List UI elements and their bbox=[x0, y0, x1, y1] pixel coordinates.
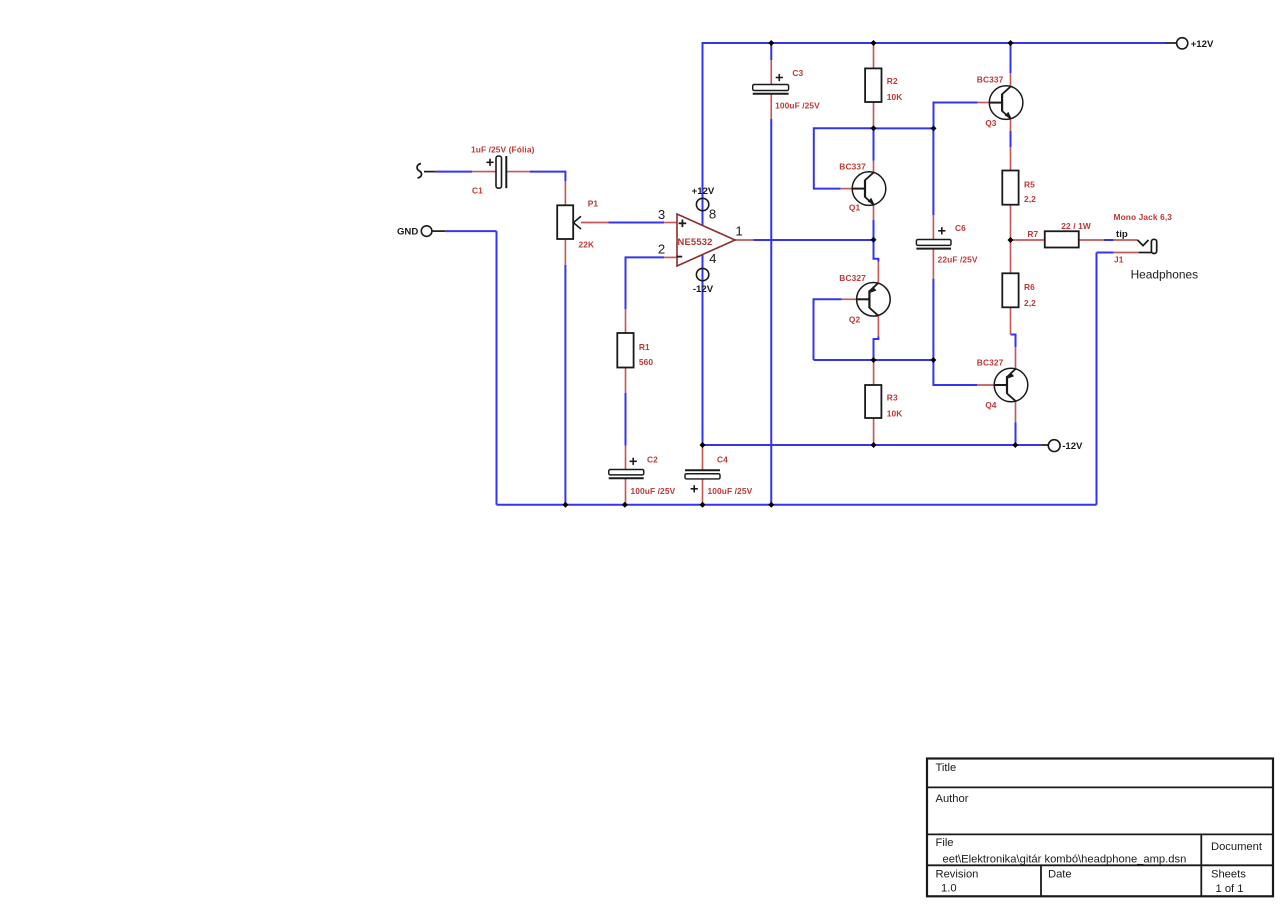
svg-text:2: 2 bbox=[658, 242, 665, 257]
svg-text:2,2: 2,2 bbox=[1024, 194, 1036, 204]
svg-text:Q3: Q3 bbox=[985, 118, 997, 128]
svg-text:R5: R5 bbox=[1024, 179, 1035, 189]
svg-text:-12V: -12V bbox=[1062, 441, 1083, 452]
svg-text:File: File bbox=[936, 837, 954, 849]
svg-text:22 / 1W: 22 / 1W bbox=[1061, 221, 1091, 231]
svg-text:P1: P1 bbox=[588, 198, 599, 208]
svg-text:J1: J1 bbox=[1114, 255, 1124, 265]
svg-text:C4: C4 bbox=[717, 455, 728, 465]
svg-text:C1: C1 bbox=[472, 186, 483, 196]
svg-text:Revision: Revision bbox=[936, 868, 979, 880]
svg-text:BC327: BC327 bbox=[977, 358, 1004, 368]
svg-text:10K: 10K bbox=[887, 409, 903, 419]
svg-text:eet\Elektronika\gitár kombó\he: eet\Elektronika\gitár kombó\headphone_am… bbox=[943, 853, 1187, 865]
svg-text:1: 1 bbox=[735, 224, 742, 239]
svg-text:NE5532: NE5532 bbox=[678, 236, 713, 247]
svg-text:22K: 22K bbox=[579, 240, 595, 250]
svg-text:+12V: +12V bbox=[1191, 39, 1214, 50]
svg-text:BC337: BC337 bbox=[839, 161, 866, 171]
svg-text:100uF /25V: 100uF /25V bbox=[708, 486, 753, 496]
svg-text:R7: R7 bbox=[1027, 229, 1038, 239]
svg-text:Headphones: Headphones bbox=[1131, 268, 1198, 282]
svg-text:BC337: BC337 bbox=[977, 74, 1004, 84]
svg-text:Mono Jack 6,3: Mono Jack 6,3 bbox=[1114, 212, 1173, 222]
svg-text:Document: Document bbox=[1211, 841, 1263, 853]
svg-text:BC327: BC327 bbox=[839, 273, 866, 283]
svg-text:2,2: 2,2 bbox=[1024, 298, 1036, 308]
svg-text:22uF /25V: 22uF /25V bbox=[938, 255, 978, 265]
svg-text:R6: R6 bbox=[1024, 282, 1035, 292]
svg-text:Sheets: Sheets bbox=[1211, 868, 1246, 880]
svg-text:1 of 1: 1 of 1 bbox=[1216, 883, 1244, 895]
svg-text:C6: C6 bbox=[955, 223, 966, 233]
svg-text:1uF /25V (Fólia): 1uF /25V (Fólia) bbox=[471, 145, 535, 155]
svg-text:Date: Date bbox=[1048, 868, 1072, 880]
svg-text:Q2: Q2 bbox=[849, 314, 861, 324]
svg-text:100uF /25V: 100uF /25V bbox=[631, 486, 676, 496]
svg-text:GND: GND bbox=[397, 226, 418, 237]
svg-text:R3: R3 bbox=[887, 392, 898, 402]
svg-text:tip: tip bbox=[1116, 229, 1128, 240]
svg-text:560: 560 bbox=[639, 357, 654, 367]
svg-text:R2: R2 bbox=[887, 76, 898, 86]
svg-text:R1: R1 bbox=[639, 342, 650, 352]
svg-text:3: 3 bbox=[658, 207, 665, 222]
svg-text:C3: C3 bbox=[792, 68, 803, 78]
svg-text:+12V: +12V bbox=[692, 186, 715, 197]
svg-text:Title: Title bbox=[936, 762, 957, 774]
svg-text:Q1: Q1 bbox=[849, 203, 861, 213]
svg-text:-12V: -12V bbox=[693, 284, 714, 295]
svg-text:8: 8 bbox=[709, 207, 716, 222]
svg-text:Q4: Q4 bbox=[985, 400, 997, 410]
svg-text:10K: 10K bbox=[887, 92, 903, 102]
svg-text:Author: Author bbox=[936, 793, 969, 805]
svg-text:C2: C2 bbox=[647, 455, 658, 465]
svg-text:4: 4 bbox=[709, 251, 716, 266]
svg-text:1.0: 1.0 bbox=[941, 882, 957, 894]
svg-text:100uF /25V: 100uF /25V bbox=[775, 100, 820, 110]
